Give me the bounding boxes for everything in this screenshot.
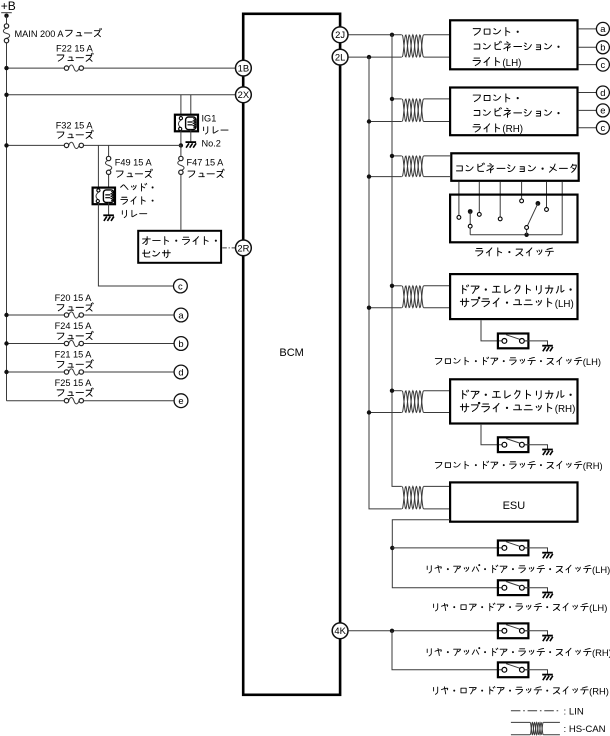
svg-text:c: c <box>601 122 606 133</box>
svg-text:1B: 1B <box>238 63 249 74</box>
svg-text:(RH): (RH) <box>502 124 523 135</box>
svg-text:2X: 2X <box>238 89 250 100</box>
light switch fixed contacts <box>457 216 461 220</box>
wire rear upper latch LH ground lead <box>525 548 548 552</box>
label DESU-LH line2 <box>460 297 573 310</box>
node d front light RH <box>579 92 597 94</box>
relay IG1 switch <box>178 120 180 127</box>
node e front light RH <box>579 109 597 111</box>
switch rear upper door latch RH <box>498 623 529 638</box>
wire 4K line <box>348 630 504 632</box>
wire IG1 coil ground stem <box>190 130 192 142</box>
connector 2R <box>236 240 252 256</box>
label F47 fuse kana <box>188 169 224 177</box>
svg-text:2R: 2R <box>237 242 249 253</box>
svg-text:(LH): (LH) <box>555 299 574 310</box>
svg-text:F47 15 A: F47 15 A <box>187 157 225 167</box>
svg-text:F20 15 A: F20 15 A <box>55 293 93 303</box>
wire headlight switch to node c <box>98 203 173 286</box>
connector 1B <box>236 60 252 76</box>
label F32 fuse kana <box>57 130 93 138</box>
contact circle p1 <box>468 224 472 228</box>
component front combination light RH <box>450 88 577 136</box>
svg-text:(LH): (LH) <box>502 58 521 69</box>
node e circle <box>174 394 188 408</box>
wire fuse b line <box>7 343 175 345</box>
label headlight relay kana1 <box>121 183 154 191</box>
svg-text:F25 15 A: F25 15 A <box>55 378 93 388</box>
label MAIN 200 A fuse <box>15 28 102 39</box>
wire 2X feed <box>7 94 236 96</box>
svg-text:2L: 2L <box>335 52 345 63</box>
label F22 fuse kana <box>57 53 93 61</box>
svg-text:4K: 4K <box>334 625 346 636</box>
label sensor kana1 <box>143 237 217 245</box>
label headlight relay kana2 <box>121 197 153 205</box>
svg-text:No.2: No.2 <box>202 139 221 149</box>
wire rear lower latch RH ground lead <box>525 670 548 674</box>
svg-text:MAIN 200 A: MAIN 200 A <box>15 29 65 39</box>
svg-text:F49 15 A: F49 15 A <box>115 157 153 167</box>
svg-text:b: b <box>178 338 183 349</box>
ground front door latch RH <box>542 449 553 451</box>
label headlight relay kana3 <box>122 210 146 217</box>
wire IG1 relay drops <box>181 95 191 117</box>
label F24 fuse kana <box>57 331 93 339</box>
label FCL-LH line2 <box>474 41 559 51</box>
svg-text:: HS-CAN: : HS-CAN <box>564 724 606 735</box>
wire HS-CAN pair door unit LH <box>392 285 402 287</box>
label DESU-RH line2 <box>460 402 575 415</box>
label front door latch LH <box>435 356 601 367</box>
svg-text:(RH): (RH) <box>583 460 603 471</box>
node b front light LH <box>579 46 597 48</box>
fuse MAIN 200A <box>3 28 9 38</box>
label DESU-RH line1 <box>463 390 572 399</box>
node a front light LH <box>579 28 597 30</box>
wire headlight coil ground stem <box>108 202 110 215</box>
label FCL-RH line1 <box>473 94 518 102</box>
svg-text:e: e <box>600 105 605 116</box>
svg-text:2J: 2J <box>335 29 345 40</box>
fuse F21 <box>69 369 79 375</box>
wire rear upper latch RH ground lead <box>525 631 548 635</box>
component door electrical supply unit RH <box>450 379 577 423</box>
svg-text:F22 15 A: F22 15 A <box>56 43 94 53</box>
svg-text:BCM: BCM <box>279 347 303 359</box>
node b circle <box>174 337 188 351</box>
fuse F49 <box>105 160 111 170</box>
svg-text:(RH): (RH) <box>592 647 610 658</box>
ground rear lower latch LH <box>542 592 553 594</box>
wire HS-CAN pair combination meter <box>392 155 402 157</box>
label FCL-LH line1 <box>473 27 518 35</box>
label meter kana <box>456 163 576 173</box>
label IG1 relay kana <box>204 127 228 134</box>
ground front door latch LH <box>542 345 553 347</box>
ground rear upper latch RH <box>542 635 553 637</box>
switch rear lower door latch LH <box>498 580 529 595</box>
wire front door latch LH feed <box>481 320 504 341</box>
wire bus A <box>369 57 402 509</box>
wire front door latch RH ground lead <box>525 445 548 449</box>
relay headlight box <box>93 188 115 205</box>
wire light switch drops <box>459 182 562 235</box>
svg-text:b: b <box>600 42 605 53</box>
node c front light RH <box>579 127 597 129</box>
wire HS-CAN pair ESU <box>402 486 423 509</box>
node +B terminal <box>1 12 12 14</box>
wire HS-CAN pair front light LH <box>402 35 423 57</box>
wire 1B feed <box>7 67 236 69</box>
wire headlight relay switch drop <box>97 145 99 188</box>
svg-text:F21 15 A: F21 15 A <box>55 350 93 360</box>
component front combination light LH <box>450 20 577 69</box>
fuse F32 <box>69 142 79 148</box>
wire HS-CAN pair front light RH <box>392 98 402 100</box>
svg-text:c: c <box>601 59 606 70</box>
ground IG1 relay <box>186 141 197 143</box>
wire 2L line <box>348 56 402 58</box>
wire 2J line <box>348 34 402 36</box>
svg-text:c: c <box>178 280 183 291</box>
relay headlight coil <box>103 190 113 203</box>
label F20 fuse kana <box>57 303 93 311</box>
svg-text:(LH): (LH) <box>583 356 601 367</box>
svg-text:+B: +B <box>1 0 16 13</box>
svg-text:IG1: IG1 <box>202 113 217 123</box>
wire rear lower latch LH ground lead <box>525 588 548 592</box>
label FCL-LH line3 <box>473 57 521 68</box>
label rear upper latch RH <box>427 647 610 658</box>
fuse F25 <box>69 398 79 404</box>
connector 2X <box>236 87 252 103</box>
switch pole 2 blade <box>536 201 541 206</box>
fuse F20 <box>69 312 79 318</box>
label sensor kana2 <box>143 250 171 258</box>
fuse F22 <box>69 65 79 71</box>
relay IG1 coil <box>186 117 196 130</box>
label F21 fuse kana <box>57 360 93 368</box>
label front door latch RH <box>435 460 602 471</box>
label rear upper latch LH <box>427 564 610 575</box>
ground headlight relay <box>103 214 114 216</box>
wire bus B <box>392 35 402 487</box>
relay IG1 box <box>175 115 198 132</box>
wire sensor LIN to 2R <box>222 247 235 249</box>
connector 2J <box>332 27 348 43</box>
wire fuse a line <box>7 314 175 316</box>
svg-text:a: a <box>178 309 184 320</box>
wire HS-CAN pair door unit RH <box>392 390 402 392</box>
switch rear upper door latch LH <box>498 541 529 556</box>
component light switch box <box>450 195 577 243</box>
wire front door latch RH feed <box>481 425 504 445</box>
component door electrical supply unit LH <box>450 274 577 319</box>
node a circle <box>174 308 188 322</box>
component combination meter <box>451 153 578 181</box>
fuse F47 <box>178 160 184 170</box>
connector 2L <box>332 49 348 65</box>
svg-text:e: e <box>178 395 183 406</box>
label light switch <box>476 248 554 256</box>
connector 4K <box>332 623 348 639</box>
ground rear upper latch LH <box>542 552 553 554</box>
label FCL-RH line3 <box>473 124 523 135</box>
component ESU box <box>450 482 577 521</box>
svg-text:ESU: ESU <box>503 500 526 512</box>
switch front door latch RH <box>498 437 529 452</box>
box auto light sensor <box>138 231 221 263</box>
label rear lower latch RH <box>434 685 609 696</box>
wire F32 feed line <box>7 144 181 146</box>
wire F49 branch <box>108 145 110 190</box>
legend HS-CAN symbol <box>511 722 560 734</box>
wire 4K branch to lower RH <box>392 631 504 670</box>
label F25 fuse kana <box>57 388 93 396</box>
fuse F24 <box>69 340 79 346</box>
svg-text:F32 15 A: F32 15 A <box>56 120 94 130</box>
wire light switch bottom bus <box>470 234 562 236</box>
switch front door latch LH <box>498 334 529 349</box>
node c front light LH <box>579 64 597 66</box>
wire fuse e line <box>7 400 175 402</box>
wire F47 branch <box>180 145 182 229</box>
svg-text:d: d <box>600 87 605 98</box>
ground rear lower latch RH <box>542 674 553 676</box>
svg-text:: LIN: : LIN <box>564 706 584 717</box>
op BCM box <box>243 14 340 695</box>
label F49 fuse kana <box>116 169 152 177</box>
wire fuse d line <box>7 371 175 373</box>
legend LIN line <box>511 710 560 712</box>
svg-text:(RH): (RH) <box>555 404 576 415</box>
svg-text:(RH): (RH) <box>589 685 609 696</box>
node c circle <box>174 279 188 293</box>
wire front door latch LH ground lead <box>525 341 548 345</box>
switch rear lower door latch RH <box>498 662 529 677</box>
contact circle p2 <box>525 226 529 230</box>
svg-text:F24 15 A: F24 15 A <box>55 321 93 331</box>
label DESU-LH line1 <box>463 285 572 294</box>
relay headlight switch <box>96 192 98 199</box>
svg-text:a: a <box>600 23 606 34</box>
label FCL-RH line2 <box>474 108 559 118</box>
switch pole 1 <box>468 209 473 214</box>
svg-text:(LH): (LH) <box>592 564 610 575</box>
wire ESU latch feed <box>392 520 504 588</box>
svg-text:(LH): (LH) <box>589 602 607 613</box>
label rear lower latch LH <box>434 602 608 613</box>
svg-text:d: d <box>178 366 183 377</box>
wire IG1 switch to F32 line <box>180 131 182 146</box>
node d circle <box>174 365 188 379</box>
wire left +B rail <box>6 16 8 401</box>
